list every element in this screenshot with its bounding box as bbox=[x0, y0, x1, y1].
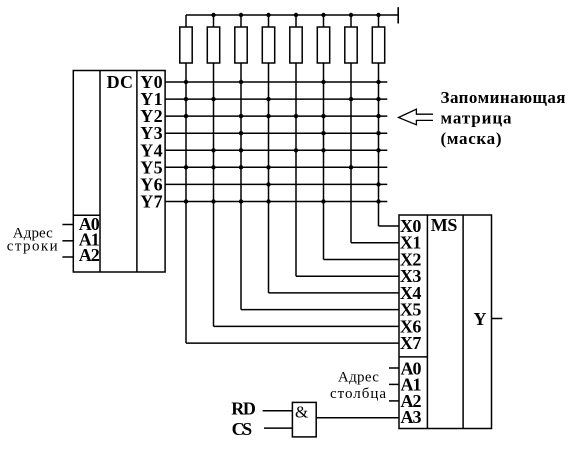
svg-text:A2: A2 bbox=[79, 245, 100, 265]
svg-text:RD: RD bbox=[231, 399, 256, 419]
svg-text:MS: MS bbox=[431, 215, 458, 235]
svg-text:&: & bbox=[295, 402, 308, 421]
svg-text:A3: A3 bbox=[401, 407, 422, 427]
svg-text:матрица: матрица bbox=[441, 108, 513, 127]
svg-text:столбца: столбца bbox=[330, 386, 386, 402]
svg-text:(маска): (маска) bbox=[441, 129, 502, 148]
svg-text:DC: DC bbox=[107, 72, 133, 92]
svg-text:Y7: Y7 bbox=[140, 192, 162, 212]
svg-text:Y: Y bbox=[474, 309, 487, 329]
svg-text:строки: строки bbox=[7, 239, 58, 255]
svg-text:CS: CS bbox=[232, 419, 253, 439]
svg-text:Запоминающая: Запоминающая bbox=[441, 88, 566, 107]
svg-text:Адрес: Адрес bbox=[338, 370, 379, 386]
svg-text:X7: X7 bbox=[400, 333, 422, 353]
